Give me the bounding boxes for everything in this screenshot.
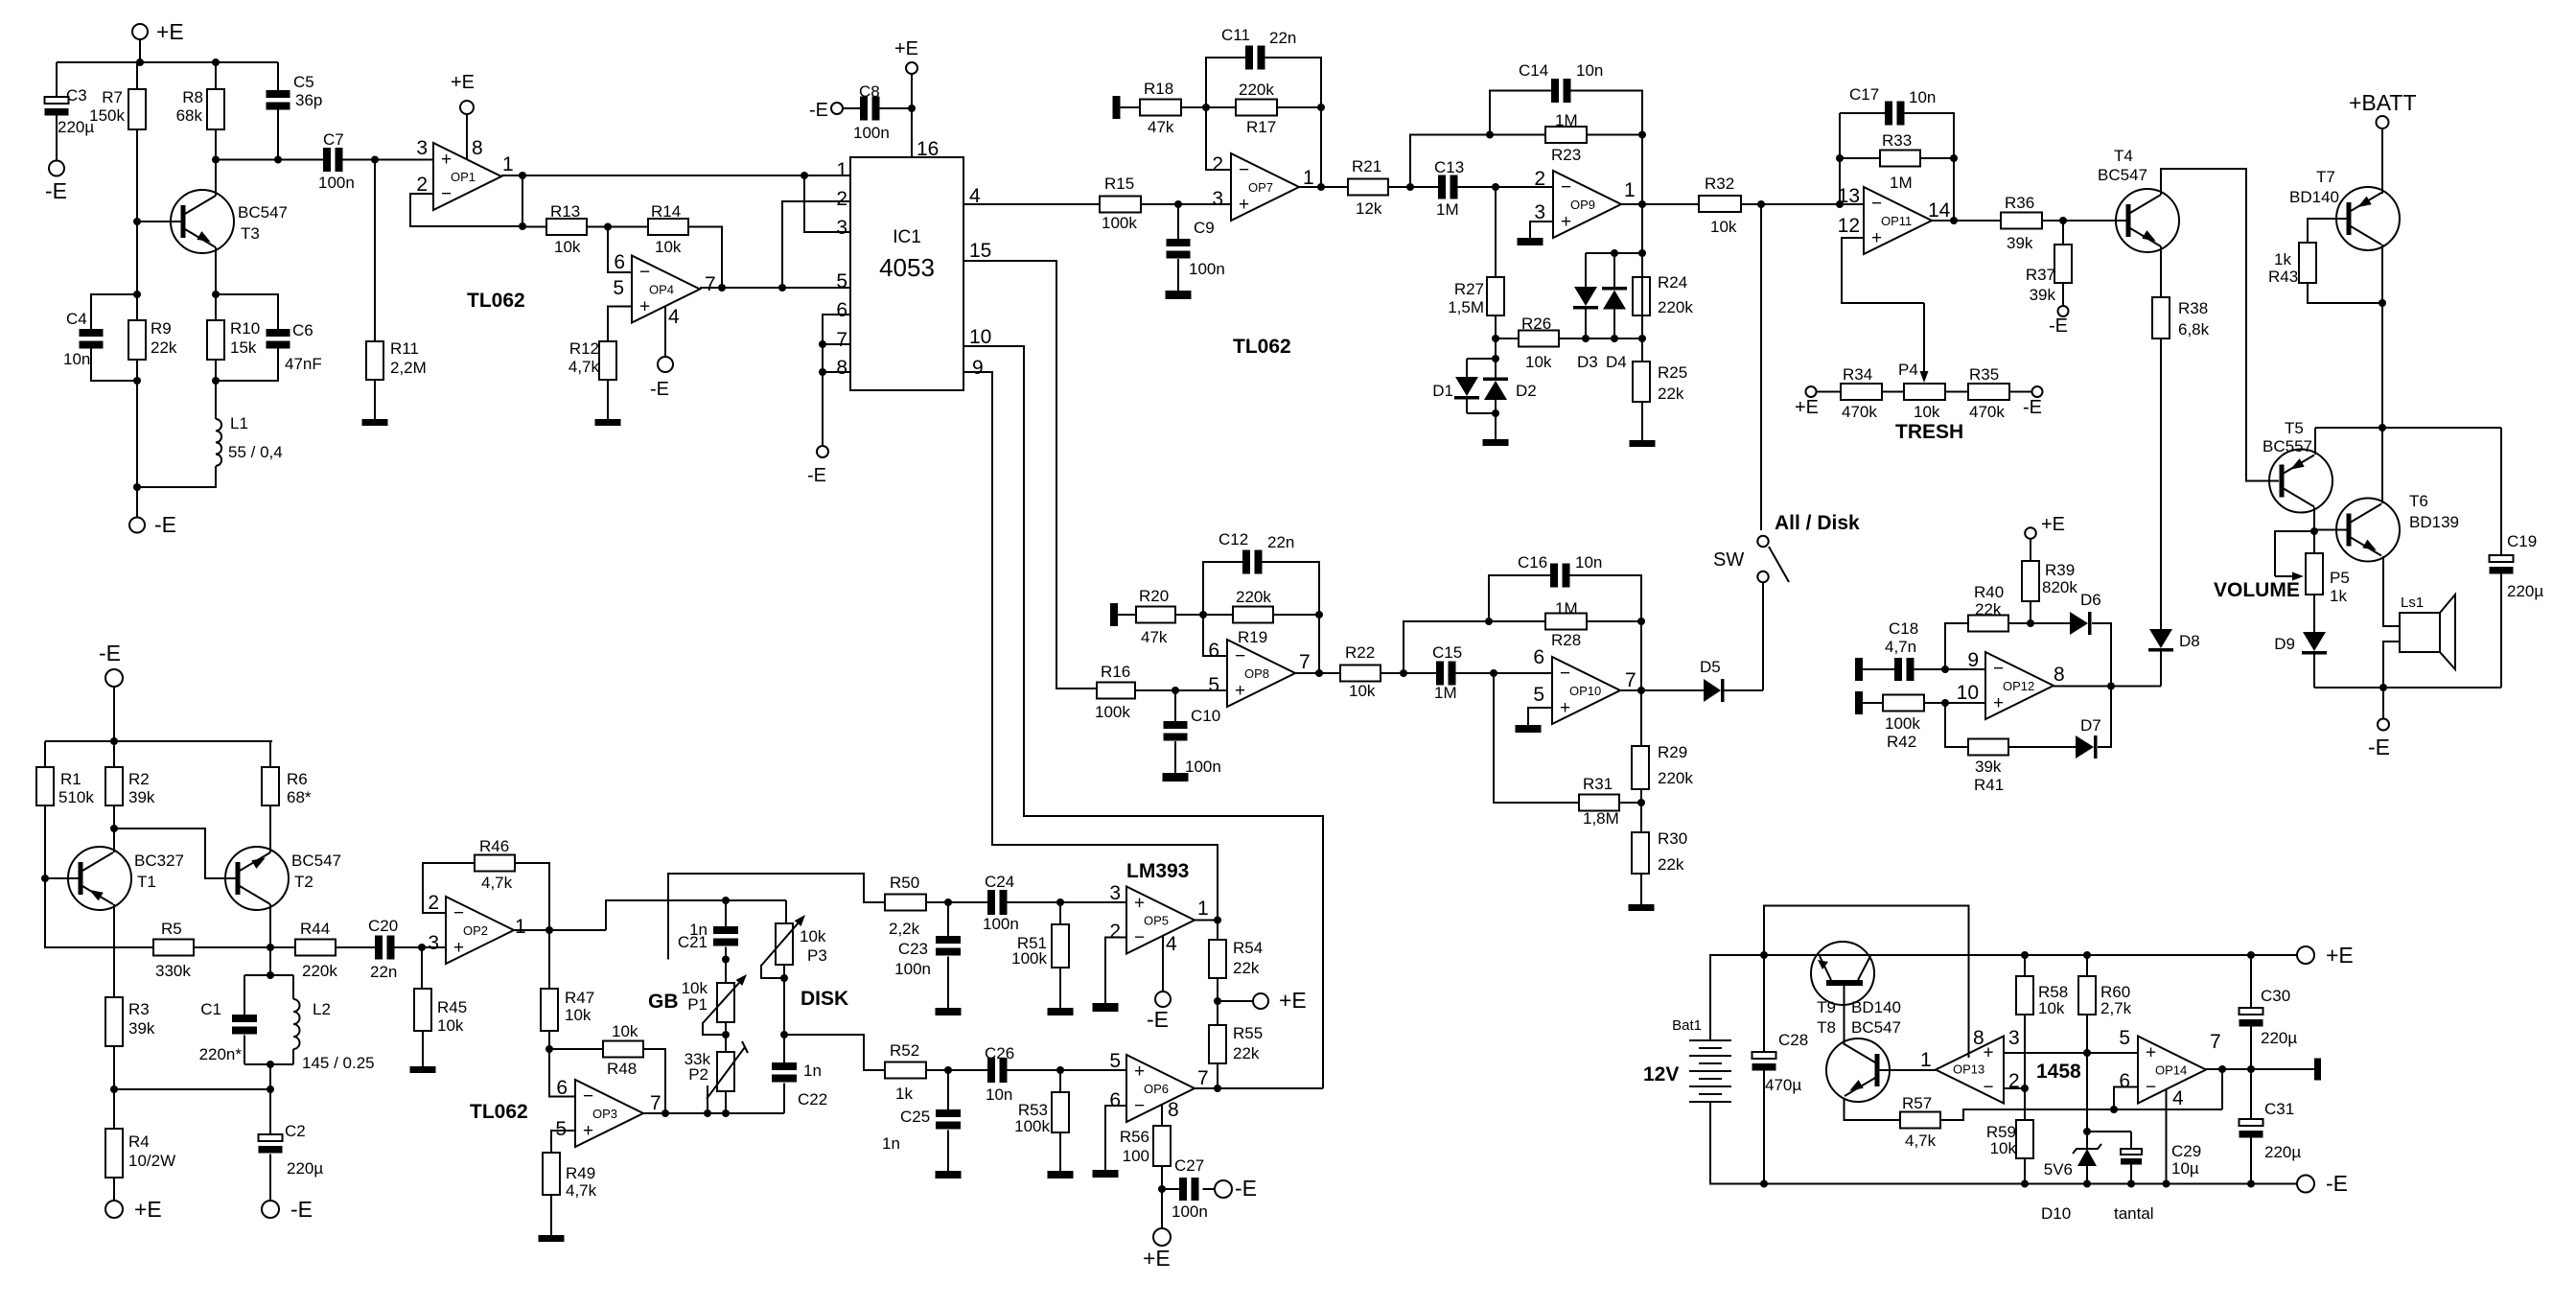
wire T1 emitter down bbox=[113, 904, 115, 947]
node R33 right bbox=[1950, 154, 1958, 162]
wire P3 top bbox=[785, 900, 787, 923]
svg-text:2,2k: 2,2k bbox=[889, 920, 920, 938]
svg-text:1: 1 bbox=[502, 153, 514, 175]
svg-text:5V6: 5V6 bbox=[2044, 1160, 2073, 1179]
wire rail to -E bbox=[2251, 1183, 2297, 1185]
node OP10 out bbox=[1637, 687, 1645, 694]
svg-text:10µ: 10µ bbox=[2171, 1159, 2199, 1178]
svg-text:9: 9 bbox=[972, 357, 984, 379]
wire R17 right bbox=[1277, 106, 1321, 108]
wire C6 branch bbox=[216, 294, 278, 329]
IC1 pin3 wire bbox=[804, 175, 850, 232]
node fb-left bbox=[1486, 131, 1494, 139]
wire R38 to D8 bbox=[2160, 338, 2162, 629]
svg-text:+: + bbox=[1993, 693, 2004, 713]
svg-text:R32: R32 bbox=[1705, 175, 1734, 193]
wire OP1 out bbox=[501, 175, 804, 176]
svg-text:R1: R1 bbox=[60, 770, 81, 788]
svg-text:2: 2 bbox=[1109, 921, 1121, 943]
svg-text:3: 3 bbox=[1109, 882, 1121, 904]
wire R9 to -E bbox=[136, 381, 138, 517]
input bar R20 bbox=[1110, 603, 1118, 626]
node base-R7 bbox=[133, 218, 141, 225]
wire to R3R4 node bbox=[114, 1088, 270, 1090]
svg-text:+E: +E bbox=[134, 1197, 162, 1222]
wire P5 to D9 bbox=[2313, 595, 2315, 632]
capacitor C1 bbox=[232, 1015, 257, 1022]
terminal -E IC1 bbox=[817, 446, 828, 457]
wire C5 bottom bbox=[277, 106, 279, 160]
svg-text:-E: -E bbox=[2023, 397, 2042, 418]
node R59 rail bbox=[2021, 1180, 2029, 1188]
svg-text:R25: R25 bbox=[1658, 363, 1687, 382]
T9 collector diag bbox=[1858, 956, 1870, 980]
svg-text:R38: R38 bbox=[2178, 299, 2208, 317]
svg-text:10k: 10k bbox=[1710, 218, 1737, 236]
wire +E to rail bbox=[139, 39, 141, 62]
resistor R23 bbox=[1545, 127, 1587, 143]
svg-text:470k: 470k bbox=[1969, 403, 2005, 421]
node C7-R11 bbox=[371, 156, 379, 164]
wire OP2 minus fb bbox=[423, 863, 475, 913]
resistor R14 bbox=[648, 219, 688, 235]
svg-text:Ls1: Ls1 bbox=[2401, 595, 2424, 611]
wire OP2 out up bbox=[606, 900, 786, 930]
wire +BATT to T7 bbox=[2381, 128, 2383, 194]
svg-text:R47: R47 bbox=[565, 989, 594, 1007]
wire OP7 out bbox=[1299, 186, 1348, 188]
svg-text:1M: 1M bbox=[1555, 111, 1578, 129]
svg-text:220k: 220k bbox=[302, 962, 337, 980]
op-amp OP6 bbox=[1126, 1055, 1195, 1122]
svg-text:10k: 10k bbox=[2038, 999, 2065, 1017]
wire to gnd D1D2 bbox=[1495, 413, 1497, 439]
svg-text:All / Disk: All / Disk bbox=[1775, 512, 1860, 534]
wire SW to D5 line bbox=[1762, 582, 1764, 690]
svg-text:C27: C27 bbox=[1174, 1156, 1204, 1175]
svg-text:L1: L1 bbox=[230, 414, 248, 432]
svg-text:220n*: 220n* bbox=[199, 1045, 243, 1063]
svg-text:P4: P4 bbox=[1898, 361, 1918, 379]
svg-text:R7: R7 bbox=[102, 88, 123, 106]
wire tank bottom bbox=[244, 1063, 293, 1065]
svg-text:-E: -E bbox=[809, 100, 828, 121]
svg-text:D2: D2 bbox=[1516, 382, 1537, 400]
resistor R58 bbox=[2016, 976, 2033, 1015]
wire P1-P2 bbox=[725, 1022, 727, 1052]
zener D10 5V6 bbox=[2073, 1144, 2101, 1154]
resistor R40 bbox=[1968, 616, 2008, 632]
wire R2 top bbox=[113, 741, 115, 767]
wire C5 top bbox=[277, 62, 279, 90]
wire OP4 pin4 bbox=[664, 307, 666, 357]
node C28 top bbox=[1760, 951, 1768, 959]
node R23-C14 bbox=[1638, 131, 1646, 139]
wire OP14 pin4 bbox=[2166, 1089, 2168, 1184]
node R3-R4 bbox=[110, 1085, 118, 1093]
node R15-C9 bbox=[1174, 200, 1182, 208]
wire R9 leads bbox=[136, 294, 138, 320]
terminal +E C27 bbox=[1153, 1228, 1171, 1246]
capacitor C16 bbox=[1550, 564, 1558, 588]
svg-text:D7: D7 bbox=[2080, 716, 2101, 735]
wire OP8 minus bbox=[1203, 615, 1227, 656]
svg-text:C28: C28 bbox=[1778, 1031, 1808, 1049]
terminal -E C8 bbox=[831, 103, 843, 114]
svg-text:10n: 10n bbox=[63, 350, 90, 368]
wire R60 to D10 bbox=[2086, 1053, 2088, 1149]
svg-text:−: − bbox=[639, 263, 650, 283]
wire R20 right bbox=[1175, 614, 1233, 616]
svg-text:BC327: BC327 bbox=[134, 852, 184, 870]
capacitor C9 bbox=[1167, 239, 1191, 246]
svg-text:C2: C2 bbox=[285, 1122, 306, 1140]
svg-text:100k: 100k bbox=[1885, 714, 1920, 733]
ground OP10 bbox=[1516, 725, 1542, 733]
wire R40-D6 bbox=[2008, 622, 2070, 624]
svg-text:100k: 100k bbox=[1014, 1117, 1050, 1135]
svg-text:+: + bbox=[1235, 681, 1245, 701]
node fb R33 left bbox=[1836, 154, 1844, 162]
svg-text:1: 1 bbox=[1303, 167, 1314, 189]
wire R46 right bbox=[515, 863, 549, 930]
IC1 pin10 wire bbox=[963, 346, 1323, 1088]
wire bar to R42 bbox=[1863, 702, 1883, 704]
svg-text:39k: 39k bbox=[2007, 234, 2033, 252]
node R16-C10 bbox=[1172, 687, 1179, 694]
svg-text:OP1: OP1 bbox=[451, 170, 476, 184]
wire D8 to OP12 out bbox=[2160, 652, 2162, 687]
svg-text:5: 5 bbox=[555, 1118, 567, 1140]
wire R51 bottom bbox=[1059, 968, 1061, 1008]
resistor R46 bbox=[475, 855, 515, 872]
wire R41 branch bbox=[1945, 703, 1968, 747]
node C8-+E bbox=[908, 105, 916, 112]
wire +E branch bbox=[1218, 1000, 1253, 1002]
node P1 wiper bbox=[722, 1031, 730, 1039]
wire fb to out bbox=[1953, 113, 1955, 221]
svg-text:1k: 1k bbox=[2274, 250, 2291, 268]
svg-text:1458: 1458 bbox=[2036, 1061, 2081, 1083]
wire L1 top bbox=[215, 381, 217, 419]
svg-text:+: + bbox=[1983, 1043, 1993, 1063]
svg-text:1: 1 bbox=[515, 916, 526, 938]
wire C29 branch bbox=[2087, 1131, 2131, 1132]
wire OP14 pin6 bbox=[2114, 1087, 2138, 1110]
wire OP9 out bbox=[1621, 203, 1699, 205]
potentiometer P4 bbox=[1904, 384, 1945, 400]
svg-text:R40: R40 bbox=[1974, 583, 2004, 601]
node T1 base bbox=[41, 875, 49, 882]
capacitor C7 bbox=[323, 148, 331, 172]
node OP12 out bbox=[2107, 683, 2115, 690]
wire T1 base bbox=[45, 877, 79, 879]
IC1 pin7 wire bbox=[823, 343, 850, 345]
node OP6 out bbox=[1214, 1085, 1221, 1092]
svg-text:OP8: OP8 bbox=[1244, 666, 1269, 681]
wire +E to C27 node bbox=[1161, 1189, 1163, 1228]
node C24-R51 bbox=[1056, 899, 1064, 906]
svg-text:1,5M: 1,5M bbox=[1448, 298, 1484, 316]
wire C4 bottom bbox=[91, 346, 137, 382]
wire R6 top bbox=[269, 741, 271, 767]
node spk rail bbox=[2379, 684, 2387, 691]
svg-text:R43: R43 bbox=[2268, 268, 2298, 286]
wire fb to OP8 out bbox=[1318, 615, 1320, 673]
IC1 pin6 wire bbox=[823, 315, 850, 446]
node D1D2 top bbox=[1492, 355, 1499, 362]
wire OP13 pin8 bbox=[1968, 1054, 1970, 1058]
node R18 out bbox=[1202, 104, 1210, 111]
svg-text:R16: R16 bbox=[1101, 663, 1130, 681]
svg-text:C7: C7 bbox=[323, 130, 344, 149]
resistor R3 bbox=[105, 997, 123, 1046]
ground R25 bbox=[1630, 440, 1656, 447]
svg-text:R46: R46 bbox=[479, 837, 509, 855]
svg-text:R44: R44 bbox=[300, 920, 330, 938]
wire R60 top bbox=[2086, 955, 2088, 976]
op-amp OP4 bbox=[632, 256, 700, 323]
wire L1 bottom bbox=[137, 466, 216, 487]
node OP4-R14 bbox=[718, 284, 726, 292]
node R43 bbox=[2379, 299, 2386, 307]
capacitor C8 bbox=[860, 97, 868, 121]
transistor T3 BC547 bbox=[171, 190, 234, 253]
resistor R30 bbox=[1632, 832, 1649, 874]
svg-text:+: + bbox=[1239, 195, 1249, 215]
wire tank loop top bbox=[244, 974, 293, 976]
resistor R16 bbox=[1097, 683, 1135, 699]
svg-text:39k: 39k bbox=[2030, 286, 2056, 304]
node OP4-pin2 bbox=[778, 284, 786, 292]
ground R45 bbox=[410, 1066, 436, 1073]
ground R11 bbox=[362, 419, 388, 426]
wire OP10 plus gnd bbox=[1528, 708, 1552, 725]
node D10 top bbox=[2083, 1128, 2091, 1135]
terminal +E OP1 bbox=[460, 101, 474, 114]
wire C13 fb rail bbox=[1410, 135, 1490, 188]
svg-text:R37: R37 bbox=[2026, 266, 2055, 284]
wire P4-R35 bbox=[1945, 391, 1968, 393]
svg-text:3: 3 bbox=[428, 932, 439, 954]
svg-text:TL062: TL062 bbox=[470, 1101, 528, 1123]
node C13 out bbox=[1492, 183, 1499, 191]
node D10 rail bbox=[2083, 1180, 2091, 1188]
svg-text:R54: R54 bbox=[1233, 939, 1263, 957]
svg-text:BD139: BD139 bbox=[2409, 513, 2459, 531]
potentiometer P5 bbox=[2306, 553, 2323, 595]
svg-text:D3: D3 bbox=[1577, 353, 1598, 371]
resistor R1 bbox=[36, 767, 54, 805]
svg-text:100n: 100n bbox=[894, 960, 931, 978]
svg-text:-E: -E bbox=[1147, 1007, 1169, 1032]
wire R35 to -E bbox=[2009, 391, 2031, 393]
transistor T1 BC327 pnp bbox=[68, 847, 131, 910]
svg-text:39k: 39k bbox=[1975, 758, 2002, 776]
svg-text:R27: R27 bbox=[1454, 280, 1484, 298]
node pin6-rail bbox=[2110, 1106, 2118, 1113]
ground OP9 bbox=[1518, 238, 1543, 245]
svg-text:-E: -E bbox=[154, 512, 176, 537]
svg-text:1: 1 bbox=[1624, 179, 1636, 201]
wire T5 emitter up bbox=[2314, 428, 2316, 455]
svg-text:2,2M: 2,2M bbox=[390, 359, 427, 377]
svg-text:+E: +E bbox=[894, 38, 918, 59]
wire T4 collector bbox=[2161, 169, 2279, 481]
svg-text:C12: C12 bbox=[1218, 530, 1248, 548]
terminal -E bottom bbox=[129, 518, 145, 533]
wire T8 base to OP13 bbox=[1880, 1069, 1937, 1071]
node OP7 out bbox=[1317, 183, 1325, 191]
svg-text:P3: P3 bbox=[807, 946, 827, 965]
wire R43 to emitter line bbox=[2308, 283, 2382, 303]
node R39-R40 bbox=[2027, 619, 2034, 627]
node R2-cross bbox=[110, 825, 118, 832]
svg-text:C15: C15 bbox=[1432, 643, 1462, 662]
wire C1 branch bbox=[244, 975, 245, 1015]
svg-text:39k: 39k bbox=[128, 788, 155, 806]
resistor R52 bbox=[885, 1062, 926, 1079]
resistor R51 bbox=[1052, 924, 1069, 968]
svg-text:C8: C8 bbox=[859, 82, 880, 101]
wire C25 top bbox=[947, 1070, 949, 1109]
svg-text:P2: P2 bbox=[688, 1065, 708, 1084]
svg-text:100n: 100n bbox=[318, 174, 355, 192]
svg-text:6: 6 bbox=[836, 299, 847, 321]
svg-text:10n: 10n bbox=[986, 1085, 1012, 1104]
capacitor C25 bbox=[936, 1109, 961, 1117]
terminal +E R4 bbox=[105, 1201, 123, 1218]
svg-text:470µ: 470µ bbox=[1765, 1076, 1801, 1094]
wire R23 left bbox=[1490, 134, 1545, 136]
svg-text:510k: 510k bbox=[58, 788, 94, 806]
resistor R25 bbox=[1633, 362, 1650, 402]
resistor R35 bbox=[1968, 384, 2009, 400]
svg-text:DISK: DISK bbox=[801, 988, 848, 1010]
wire bar-R20 bbox=[1118, 614, 1136, 616]
ground C9 bbox=[1166, 291, 1192, 299]
resistor R55 bbox=[1209, 1025, 1226, 1063]
svg-text:10k: 10k bbox=[655, 238, 682, 256]
wire OP3 plus bbox=[551, 1131, 575, 1153]
capacitor C19 bbox=[2500, 428, 2502, 555]
svg-text:T9: T9 bbox=[1817, 998, 1836, 1016]
svg-text:4: 4 bbox=[2172, 1087, 2184, 1109]
node OP2 out bbox=[545, 926, 553, 934]
svg-text:C25: C25 bbox=[900, 1108, 930, 1126]
svg-text:22n: 22n bbox=[370, 963, 397, 981]
resistor R20 bbox=[1136, 607, 1175, 623]
wire D6 right bbox=[2092, 623, 2111, 687]
node R50-C23 bbox=[944, 899, 952, 906]
svg-text:15k: 15k bbox=[230, 338, 257, 357]
wire R48 right bbox=[643, 1049, 665, 1113]
svg-text:−: − bbox=[1561, 177, 1571, 198]
wire battery bottom bbox=[1710, 1102, 2251, 1184]
wire top rail T5T6 bbox=[2315, 427, 2501, 429]
svg-text:−: − bbox=[1983, 1078, 1993, 1098]
op-amp OP13 apex left bbox=[1936, 1037, 2004, 1104]
svg-text:−: − bbox=[441, 184, 452, 204]
node rail-R8 bbox=[212, 58, 220, 66]
wire R4 to +E bbox=[113, 1178, 115, 1201]
svg-text:R6: R6 bbox=[287, 770, 308, 788]
wire P3 bottom bbox=[783, 965, 785, 1035]
wire R53 top bbox=[1059, 1070, 1061, 1092]
resistor R41 bbox=[1968, 739, 2008, 756]
wire C11 branch bbox=[1206, 58, 1245, 107]
svg-text:BC547: BC547 bbox=[2098, 166, 2147, 184]
svg-text:R17: R17 bbox=[1246, 118, 1276, 136]
IC1 pin8 wire bbox=[823, 371, 850, 373]
capacitor C11 bbox=[1245, 46, 1253, 70]
svg-text:R2: R2 bbox=[128, 770, 150, 788]
resistor R49 bbox=[543, 1153, 560, 1195]
wire R18-R17 bbox=[1181, 106, 1236, 108]
wire T6 emitter bbox=[2383, 556, 2400, 626]
svg-text:R50: R50 bbox=[890, 874, 919, 892]
op-amp OP11 bbox=[1864, 187, 1932, 254]
svg-text:12: 12 bbox=[1838, 215, 1860, 237]
wire C7 to OP1 bbox=[341, 159, 434, 161]
wire R58 top bbox=[2024, 955, 2026, 976]
node R42 out bbox=[1941, 699, 1949, 707]
wire R40 left bbox=[1945, 623, 1968, 669]
wire T5C to P5 bbox=[2313, 531, 2315, 553]
op-amp OP8 bbox=[1227, 640, 1295, 707]
svg-text:R28: R28 bbox=[1551, 631, 1581, 649]
svg-text:BD140: BD140 bbox=[1851, 998, 1901, 1016]
resistor R56 bbox=[1153, 1126, 1171, 1166]
node rail-R7 bbox=[136, 58, 144, 66]
resistor R13 bbox=[546, 219, 587, 235]
svg-text:C19: C19 bbox=[2507, 532, 2537, 550]
terminal +E supply bbox=[2297, 946, 2314, 964]
svg-text:D6: D6 bbox=[2080, 591, 2101, 609]
capacitor C29 tantal bbox=[2130, 1132, 2132, 1149]
op-amp OP9 bbox=[1553, 171, 1621, 238]
terminal -E OP4 bbox=[658, 357, 673, 372]
resistor R38 bbox=[2152, 297, 2170, 338]
svg-text:22k: 22k bbox=[1658, 855, 1684, 874]
wire pin2 bbox=[2004, 1087, 2025, 1089]
wire C3 branch top bbox=[56, 62, 58, 97]
svg-text:55 / 0,4: 55 / 0,4 bbox=[228, 443, 283, 461]
svg-text:5: 5 bbox=[1109, 1050, 1121, 1072]
wire OP3 out bbox=[643, 1112, 784, 1114]
wire R32 to SW bbox=[1760, 204, 1762, 530]
svg-text:R30: R30 bbox=[1658, 829, 1687, 848]
capacitor C14 bbox=[1551, 79, 1559, 103]
ground C25 bbox=[936, 1171, 962, 1179]
svg-text:C29: C29 bbox=[2171, 1142, 2201, 1160]
op-amp OP10 bbox=[1552, 657, 1620, 724]
capacitor C17 bbox=[1885, 102, 1892, 126]
svg-text:P1: P1 bbox=[687, 995, 708, 1014]
node OP3-P2w bbox=[704, 1109, 711, 1117]
wire R1 top bbox=[44, 741, 46, 767]
svg-text:−: − bbox=[1134, 928, 1145, 948]
wire OP2 out bbox=[512, 929, 606, 931]
wire R8 top bbox=[215, 62, 217, 89]
wire P1 wiper tie bbox=[703, 1022, 726, 1035]
wire R13 left bbox=[522, 226, 546, 228]
capacitor C4 bbox=[80, 329, 104, 337]
terminal +E IC1 bbox=[906, 62, 917, 74]
svg-text:C5: C5 bbox=[293, 73, 314, 91]
wire pin16 bbox=[911, 74, 913, 157]
svg-text:22k: 22k bbox=[1658, 385, 1684, 403]
